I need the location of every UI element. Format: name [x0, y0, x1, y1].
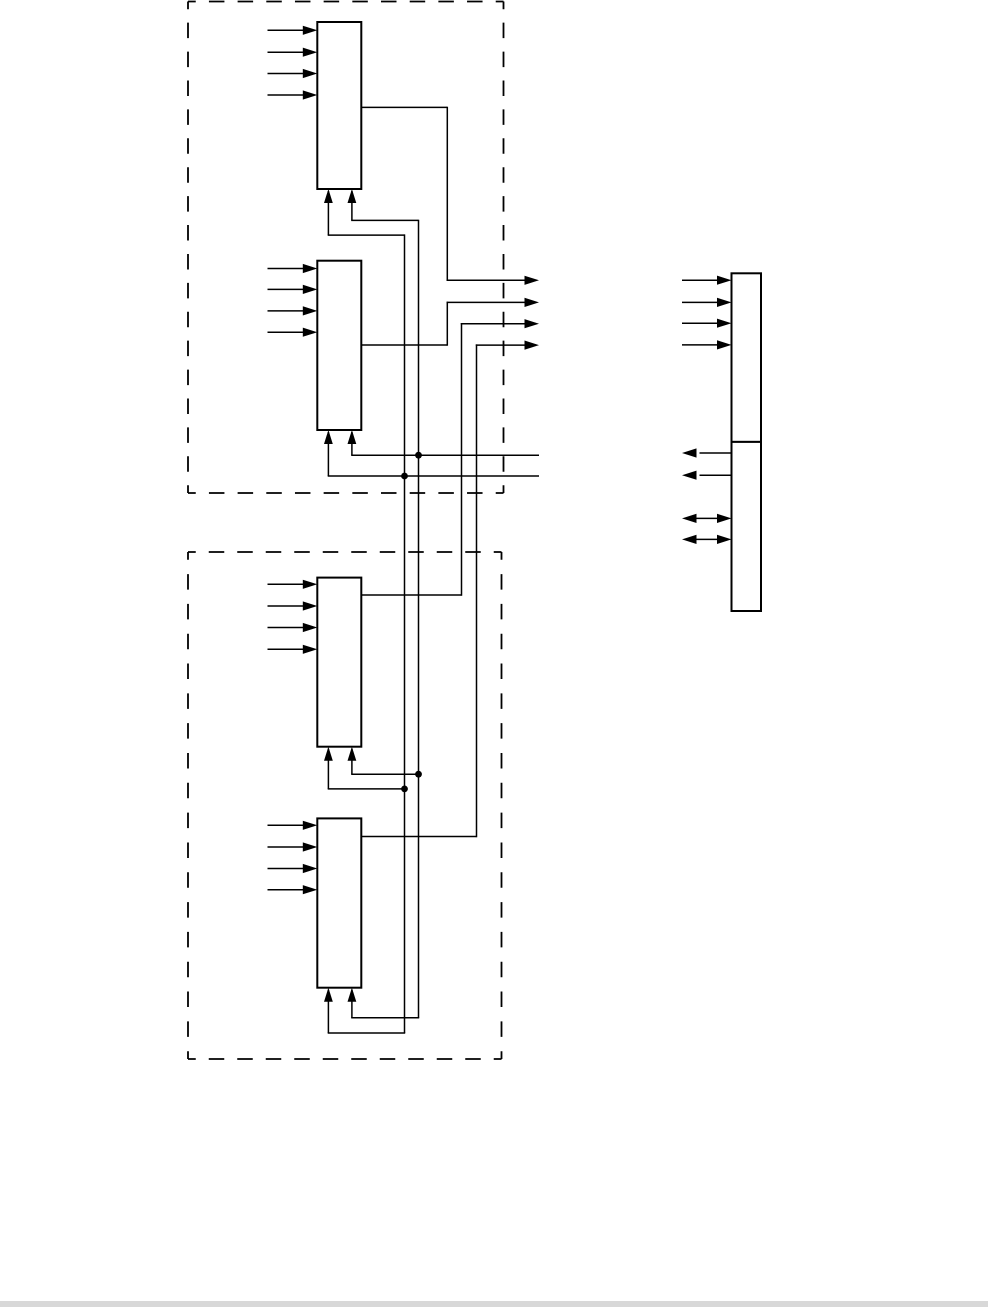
wire: U5 output arrow 2 [682, 471, 732, 480]
dashed enclosure DB1 (top timer group) [188, 2, 504, 494]
wire: U4 control input right (from bus B) [348, 988, 420, 1018]
wire: U3 input arrow 4 [268, 645, 318, 654]
block U1 [317, 22, 361, 189]
page footer separator bar [0, 1301, 988, 1307]
junction dot: bus A / U2 control [401, 473, 408, 480]
wire: U2 input arrow 1 [268, 264, 318, 273]
wire: U5 input arrow 4 [682, 340, 732, 349]
wire: vertical bus A (x=404.5) [404, 234, 406, 1033]
wire: U4 input arrow 2 [268, 842, 318, 851]
dashed enclosure DB2 (bottom timer group) [188, 552, 502, 1059]
wire: U3 input arrow 1 [268, 580, 318, 589]
wire: U2 control input right / horizontal run to data bus [348, 430, 540, 455]
junction dot: bus B / U3 control [415, 771, 422, 778]
wire: U1 input arrow 4 [268, 90, 318, 99]
wire: vertical bus B (x=418.5) [418, 220, 420, 1018]
wire: U2 input arrow 3 [268, 306, 318, 315]
wire: U2 input arrow 2 [268, 285, 318, 294]
wire: U1 input arrow 3 [268, 69, 318, 78]
block U3 [317, 578, 361, 747]
register block U5 (lower section) [732, 442, 762, 611]
junction dot: bus B / U2 control [415, 452, 422, 459]
wire: U3 input arrow 2 [268, 601, 318, 610]
wire: U5 input arrow 3 [682, 319, 732, 328]
wire: U3 output to arrow 3 [361, 319, 539, 596]
wire: U5 input arrow 2 [682, 298, 732, 307]
wire: U5 bidirectional arrow 1 [682, 514, 732, 523]
wire: U4 input arrow 4 [268, 885, 318, 894]
wire: U1 control input right (from bus B) [348, 189, 419, 220]
wire: U1 control input left (from bus A) [324, 189, 405, 235]
block U2 [317, 261, 361, 430]
wire: U3 input arrow 3 [268, 623, 318, 632]
wire: U4 input arrow 3 [268, 864, 318, 873]
wire: U4 output to arrow 4 [361, 341, 539, 838]
register block U5 (upper section) [732, 273, 762, 442]
wire: U2 output to arrow 2 [361, 298, 539, 346]
wire: U4 control input left (from bus A) [324, 988, 405, 1033]
wire: U5 output arrow 1 [682, 448, 732, 457]
wire: U2 control input left / horizontal run to data bus [324, 430, 539, 476]
wire: U3 control input left (from bus A) [324, 747, 405, 789]
block U4 [317, 818, 361, 987]
wire: U4 input arrow 1 [268, 821, 318, 830]
wire: U1 input arrow 2 [268, 48, 318, 57]
wire: U5 bidirectional arrow 2 [682, 535, 732, 544]
wire: U1 output to arrow 1 [361, 107, 539, 285]
junction dot: bus A / U3 control [401, 786, 408, 793]
wire: U1 input arrow 1 [268, 26, 318, 35]
wire: U3 control input right (from bus B) [348, 747, 419, 775]
wire: U2 input arrow 4 [268, 328, 318, 337]
wire: U5 input arrow 1 [682, 276, 732, 285]
